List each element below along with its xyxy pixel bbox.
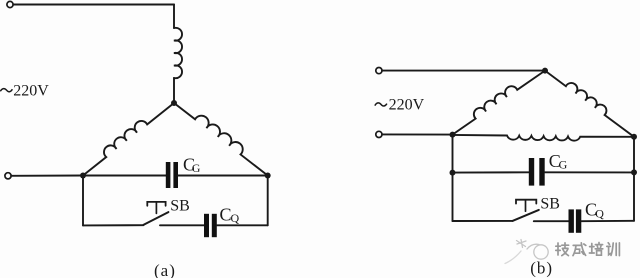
- label CG (b): [549, 151, 568, 172]
- pushbutton SB (a): [143, 202, 168, 225]
- terminal L2 (a): [5, 173, 11, 179]
- wire CG to right node (a): [178, 175, 268, 177]
- wire bottom left (b): [453, 220, 513, 222]
- terminal L2 (b): [376, 131, 382, 137]
- svg-text:Q: Q: [595, 206, 604, 220]
- node apex (b): [542, 68, 548, 74]
- winding left diagonal (b): [453, 71, 546, 135]
- svg-text:(b): (b): [530, 258, 553, 277]
- node CG right (b): [631, 169, 637, 175]
- capacitor CG (a): [166, 162, 178, 188]
- label CQ (b): [585, 200, 604, 221]
- svg-text:220V: 220V: [13, 82, 49, 99]
- svg-text:Q: Q: [231, 211, 240, 225]
- wire CQ to right corner (a): [217, 224, 268, 226]
- winding left diagonal (a): [83, 103, 174, 176]
- wire CG left (b): [453, 171, 529, 173]
- svg-text:SB: SB: [540, 196, 560, 213]
- wire main winding to star point (a): [173, 78, 175, 103]
- node star point (a): [171, 100, 177, 106]
- label ~220V (b): [375, 97, 425, 114]
- watermark logo: [505, 240, 548, 264]
- wire right vertical (a): [267, 176, 269, 226]
- wire right vertical (b): [633, 137, 635, 221]
- label CG (a): [183, 155, 201, 176]
- wire L1 to top corner (a): [13, 4, 174, 6]
- pushbutton SB (b): [513, 200, 539, 221]
- node right (a): [265, 173, 271, 179]
- node right (b): [631, 134, 637, 140]
- svg-text:(a): (a): [154, 261, 176, 278]
- terminal L1 (b): [376, 68, 382, 74]
- svg-text:220V: 220V: [389, 97, 425, 114]
- svg-text:SB: SB: [170, 197, 190, 214]
- capacitor CQ (b): [569, 209, 582, 232]
- wire CG right (b): [545, 171, 634, 173]
- terminal L1 (a): [7, 1, 13, 7]
- svg-text:G: G: [559, 157, 568, 171]
- watermark text 技成培训: [556, 243, 620, 256]
- wire left vertical (a): [82, 176, 84, 226]
- wire SB to CQ (a): [160, 224, 204, 226]
- wire L1 to apex (b): [382, 70, 545, 72]
- capacitor CG (b): [529, 158, 545, 186]
- capacitor CQ (a): [204, 214, 217, 237]
- node CG left (b): [450, 170, 456, 176]
- node left (a): [80, 173, 86, 179]
- wire bottom left (a): [83, 224, 143, 226]
- wire L2 to left node (b): [382, 133, 452, 135]
- wire top corner down to main winding (a): [173, 5, 175, 29]
- winding right diagonal (a): [174, 103, 268, 176]
- label ~220V (a): [0, 82, 49, 99]
- wire SB to CQ (b): [534, 220, 569, 222]
- winding horizontal (b): [453, 135, 635, 141]
- winding right diagonal (b): [545, 71, 634, 137]
- wire CQ to right corner (b): [581, 220, 634, 222]
- label CQ (a): [220, 205, 240, 226]
- wire left node to CG (a): [83, 175, 166, 177]
- wire left vertical (b): [452, 135, 454, 221]
- node left (b): [450, 132, 456, 138]
- main winding coil (a): [174, 28, 182, 78]
- svg-text:G: G: [192, 161, 201, 175]
- wire L2 to left node (a): [11, 175, 83, 177]
